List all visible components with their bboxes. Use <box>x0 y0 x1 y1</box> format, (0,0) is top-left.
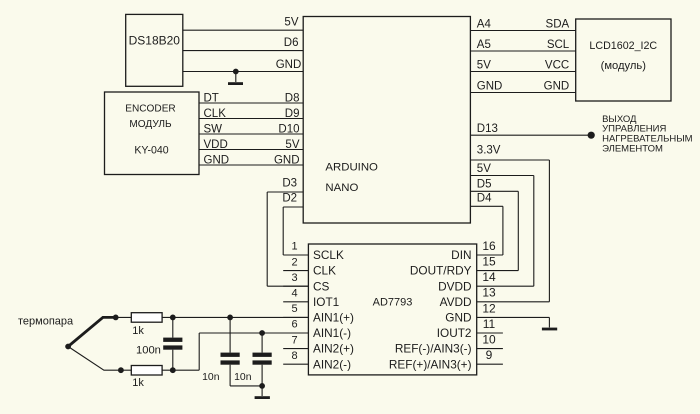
svg-text:DS18B20: DS18B20 <box>129 34 181 48</box>
svg-text:KY-040: KY-040 <box>134 145 168 157</box>
svg-text:REF(-)/AIN3(-): REF(-)/AIN3(-) <box>395 342 472 356</box>
svg-text:IOUT2: IOUT2 <box>437 326 472 340</box>
svg-text:VDD: VDD <box>204 139 228 151</box>
thermocouple leg (thin, negative) <box>68 347 121 371</box>
svg-text:CLK: CLK <box>204 108 227 120</box>
svg-text:1k: 1k <box>132 377 144 389</box>
AD7793 pin 4 stub (IOT1) <box>283 301 308 303</box>
svg-text:GND: GND <box>477 81 503 93</box>
AD7793 pin 15 stub (DOUT/RDY) <box>477 270 519 272</box>
wire GND to GND (encoder to Arduino) <box>199 164 303 166</box>
wire CLK to D9 (encoder to Arduino) <box>199 118 303 120</box>
svg-text:4: 4 <box>291 287 297 299</box>
svg-text:1k: 1k <box>132 325 144 337</box>
wire 3.3V (Arduino to AD7793 pin 13 AVDD) <box>470 159 549 161</box>
svg-text:SCL: SCL <box>547 39 570 51</box>
junction node on ground rail <box>259 383 265 389</box>
svg-text:100n: 100n <box>136 345 161 357</box>
AD7793 pin 16 stub (DIN) <box>477 254 503 256</box>
svg-text:10n: 10n <box>202 372 220 383</box>
AD7793 pin 2 stub (CLK) <box>283 270 308 272</box>
svg-text:CS: CS <box>313 279 330 293</box>
svg-text:NANO: NANO <box>325 182 358 194</box>
svg-text:VCC: VCC <box>545 60 569 72</box>
svg-text:10: 10 <box>482 333 496 347</box>
capacitor C2 10n (left) <box>227 315 233 321</box>
svg-text:D8: D8 <box>285 92 300 104</box>
svg-text:3: 3 <box>291 272 297 284</box>
wire bottom thermocouple net <box>121 369 199 371</box>
wire riser to AIN1(-) <box>198 333 200 370</box>
capacitor C1 100n <box>170 315 176 321</box>
ground symbol on DS18B20 GND wire <box>233 69 239 75</box>
svg-text:11: 11 <box>483 317 496 331</box>
svg-text:(модуль): (модуль) <box>601 60 647 72</box>
ground symbol on AD7793 pin 12 GND <box>548 317 550 327</box>
svg-text:5V: 5V <box>477 60 491 72</box>
AD7793 pin 12 stub (GND) <box>477 316 550 318</box>
svg-text:GND: GND <box>276 59 302 71</box>
svg-text:SCLK: SCLK <box>313 248 344 262</box>
svg-text:DVDD: DVDD <box>438 279 471 293</box>
capacitor C3 10n (right) <box>259 330 265 336</box>
svg-text:REF(+)/AIN3(+): REF(+)/AIN3(+) <box>389 357 472 371</box>
wire D6 <box>183 50 303 52</box>
AD7793 pin 13 stub (AVDD) <box>477 301 550 303</box>
LCD1602 I2C module box <box>576 19 671 101</box>
AD7793 pin 3 stub (CS) <box>283 285 308 287</box>
svg-text:AIN1(-): AIN1(-) <box>313 326 351 340</box>
DS18B20 sensor box U2 <box>126 14 183 86</box>
resistor R2 1k (bottom) <box>131 366 162 376</box>
thermocouple leg (thick, positive) <box>68 317 116 346</box>
svg-text:D2: D2 <box>282 193 297 205</box>
encoder module box (KY-040) <box>105 92 200 175</box>
wire GND (DS18B20) <box>183 71 303 73</box>
svg-text:2: 2 <box>291 256 297 268</box>
svg-text:GND: GND <box>445 311 471 325</box>
AD7793 pin 8 stub (AIN2(-)) <box>283 363 308 365</box>
resistor R1 1k (top) <box>131 313 162 323</box>
AD7793 pin 5 stub (AIN1(+)) <box>283 316 308 318</box>
svg-text:LCD1602_I2C: LCD1602_I2C <box>589 40 657 52</box>
svg-text:3.3V: 3.3V <box>477 144 501 156</box>
svg-text:D5: D5 <box>477 178 492 190</box>
wire 5V to VCC (Arduino to LCD) <box>470 71 575 73</box>
svg-text:9: 9 <box>486 348 493 362</box>
svg-text:ARDUINO: ARDUINO <box>325 162 378 174</box>
ground symbol (analog input filter) <box>261 386 263 396</box>
wire SW to D10 (encoder to Arduino) <box>199 133 303 135</box>
wire D3 (Arduino to AD7793 pin 3 CS) <box>267 191 303 193</box>
svg-text:D6: D6 <box>284 37 299 49</box>
svg-text:AD7793: AD7793 <box>373 297 413 309</box>
svg-text:6: 6 <box>291 319 297 331</box>
svg-text:D13: D13 <box>477 123 498 135</box>
wire D13 heater control output <box>470 134 591 136</box>
svg-text:8: 8 <box>291 350 297 362</box>
svg-text:D10: D10 <box>278 123 299 135</box>
ADC AD7793 box U4 <box>308 244 476 375</box>
svg-text:DOUT/RDY: DOUT/RDY <box>410 264 472 278</box>
svg-text:МОДУЛЬ: МОДУЛЬ <box>129 119 172 130</box>
svg-text:A5: A5 <box>477 39 491 51</box>
svg-text:13: 13 <box>482 286 496 300</box>
wire AIN1(+) net (to AD7793 pin 5) <box>116 316 309 318</box>
svg-text:термопара: термопара <box>18 315 74 327</box>
wire D5 (Arduino to AD7793 pin 15 DOUT/RDY) <box>470 190 518 192</box>
svg-text:D4: D4 <box>477 192 492 204</box>
wire 5V (Arduino to AD7793 pin 14 DVDD) <box>470 175 533 177</box>
svg-text:12: 12 <box>482 301 496 315</box>
svg-text:5V: 5V <box>477 163 491 175</box>
svg-text:AIN2(+): AIN2(+) <box>313 342 354 356</box>
svg-text:GND: GND <box>274 154 300 166</box>
wire A4 to SDA (Arduino to LCD) <box>470 30 575 32</box>
svg-text:GND: GND <box>204 154 230 166</box>
svg-text:SDA: SDA <box>546 19 570 31</box>
svg-text:DIN: DIN <box>451 248 471 262</box>
svg-text:D9: D9 <box>285 108 300 120</box>
svg-text:IOT1: IOT1 <box>313 295 339 309</box>
svg-text:5V: 5V <box>284 17 298 29</box>
svg-text:GND: GND <box>544 81 570 93</box>
wire D2 (Arduino to AD7793 pin 1 SCLK) <box>283 206 303 208</box>
svg-text:ENCODER: ENCODER <box>125 104 175 115</box>
svg-text:1: 1 <box>291 241 297 253</box>
thermocouple terminal node (bottom) <box>118 367 124 373</box>
thermocouple terminal node (top) <box>113 315 119 321</box>
svg-text:7: 7 <box>291 334 297 346</box>
svg-text:10n: 10n <box>234 372 252 383</box>
svg-text:AVDD: AVDD <box>440 295 472 309</box>
Arduino Nano box U3 <box>303 17 470 224</box>
AD7793 pin 14 stub (DVDD) <box>477 285 534 287</box>
AD7793 pin 10 stub (REF(-)/AIN3(-)) <box>477 348 503 350</box>
svg-text:A4: A4 <box>477 19 492 31</box>
AD7793 pin 9 stub (REF(+)/AIN3(+)) <box>477 363 503 365</box>
svg-text:5: 5 <box>291 303 297 315</box>
wire D4 (Arduino to AD7793 pin 16 DIN) <box>470 205 503 207</box>
svg-text:D3: D3 <box>282 178 297 190</box>
node: output terminal dot <box>588 132 595 139</box>
wire VDD to 5V (encoder to Arduino) <box>199 149 303 151</box>
svg-text:16: 16 <box>482 239 496 253</box>
svg-text:15: 15 <box>482 255 496 269</box>
wire A5 to SCL (Arduino to LCD) <box>470 50 575 52</box>
svg-text:AIN1(+): AIN1(+) <box>313 311 354 325</box>
wire capacitor ground rail <box>230 385 262 387</box>
wire GND to GND (Arduino to LCD) <box>470 92 575 94</box>
svg-text:CLK: CLK <box>313 264 336 278</box>
svg-text:ЭЛЕМЕНТОМ: ЭЛЕМЕНТОМ <box>602 144 663 155</box>
svg-text:SW: SW <box>204 123 223 135</box>
svg-text:AIN2(-): AIN2(-) <box>313 357 351 371</box>
AD7793 pin 7 stub (AIN2(+)) <box>283 348 308 350</box>
svg-text:DT: DT <box>204 92 219 104</box>
AD7793 pin 11 stub (IOUT2) <box>477 332 503 334</box>
wire DT to D8 (encoder to Arduino) <box>199 102 303 104</box>
AD7793 pin 1 stub (SCLK) <box>283 254 308 256</box>
wire 5V (DS18B20 to Arduino) <box>183 29 303 31</box>
AD7793 pin 6 stub (AIN1(-)) <box>283 332 308 334</box>
svg-text:5V: 5V <box>285 139 299 151</box>
thermocouple junction node <box>65 344 71 350</box>
svg-text:14: 14 <box>482 270 496 284</box>
wire AIN1(-) net (to AD7793 pin 6) <box>199 332 308 334</box>
